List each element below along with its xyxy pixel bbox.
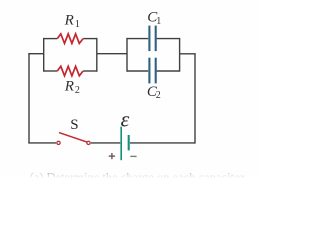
switch S: lever: [59, 133, 87, 143]
switch S: left contact: [57, 141, 60, 144]
wire: switch to battery: [91, 142, 120, 144]
svg-text:S: S: [70, 117, 78, 133]
battery: long positive plate: [120, 127, 122, 161]
svg-text:1: 1: [75, 19, 80, 30]
label plus: [109, 153, 115, 159]
svg-text:1: 1: [156, 16, 161, 27]
svg-text:2: 2: [156, 90, 161, 101]
wire: battery to bottom-right corner: [130, 142, 195, 144]
resistor R2: [57, 66, 83, 76]
wire: left vertical: [28, 54, 30, 144]
bottom fade overlay: [0, 172, 259, 178]
svg-text:2: 2: [75, 85, 80, 96]
capacitor C2: [149, 58, 155, 84]
switch S: right contact: [87, 141, 90, 144]
node: resistor parallel box: [44, 38, 98, 72]
svg-text:ε: ε: [121, 106, 130, 131]
battery: short negative plate: [128, 135, 130, 150]
label minus: [130, 155, 136, 157]
node: capacitor parallel box: [127, 38, 180, 72]
resistor R1: [57, 34, 83, 44]
svg-text:R: R: [64, 79, 74, 95]
svg-text:R: R: [64, 12, 74, 28]
capacitor C1: [149, 26, 155, 51]
wire: left lead to resistor box: [28, 53, 43, 55]
wire: middle lead between boxes: [97, 53, 127, 55]
wire: right vertical: [194, 54, 196, 144]
wire: bottom-left segment to switch: [28, 142, 56, 144]
wire: right lead from capacitor box: [180, 53, 196, 55]
